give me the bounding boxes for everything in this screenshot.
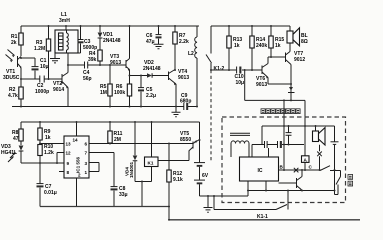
svg-text:9.1k: 9.1k: [173, 177, 183, 183]
svg-text:47: 47: [13, 136, 19, 142]
svg-text:9012: 9012: [294, 57, 305, 63]
svg-text:1k: 1k: [45, 135, 51, 141]
svg-text:IC1 556: IC1 556: [76, 156, 81, 173]
switch K1-1: [214, 196, 287, 220]
diode VD2: [143, 60, 169, 78]
svg-text:HG41L: HG41L: [1, 150, 17, 156]
resistor R2: [8, 87, 23, 107]
wire module bottom line: [248, 181, 335, 196]
wire pin7 to C8: [89, 153, 114, 187]
wire supply rail y122: [21, 121, 200, 123]
transistor VT7: [286, 43, 306, 100]
capacitor C8: [111, 186, 128, 207]
X cut mark: [317, 152, 322, 157]
svg-text:100k: 100k: [114, 90, 125, 96]
wire pin12: [57, 153, 64, 164]
svg-text:8: 8: [67, 170, 70, 175]
svg-text:680p: 680p: [180, 99, 191, 105]
wire relay bottom node: [135, 182, 152, 207]
svg-text:3: 3: [85, 161, 88, 166]
svg-text:9014: 9014: [53, 87, 64, 93]
IC box (module): [240, 157, 279, 181]
wire pin6 to VT5 base: [89, 143, 193, 145]
svg-text:1.2M: 1.2M: [34, 46, 45, 52]
point A box: [302, 156, 320, 170]
transformer T1 box: [55, 26, 78, 53]
wire K1-2 to C10 to VT6 base: [211, 69, 262, 71]
resistor R3: [34, 26, 51, 79]
resistor R12: [167, 144, 183, 220]
resistor R1: [11, 26, 23, 56]
svg-text:1k: 1k: [234, 43, 240, 49]
transistor VT2: [53, 53, 68, 107]
ground (battery): [204, 196, 213, 212]
capacitor C2: [35, 76, 49, 96]
battery 6V: [194, 122, 209, 196]
svg-text:9013: 9013: [110, 60, 121, 66]
svg-text:9013: 9013: [178, 75, 189, 81]
svg-text:7: 7: [85, 151, 88, 156]
speaker BL: [287, 28, 308, 46]
label module (Chinese): [261, 109, 300, 114]
resistor R11: [108, 122, 123, 144]
transistor VT6: [256, 57, 271, 88]
capacitor (module c1): [265, 141, 268, 148]
transformer (module): [230, 133, 250, 157]
relay K1: [145, 122, 159, 182]
svg-text:IC: IC: [258, 168, 263, 174]
wire base line y65: [68, 64, 126, 66]
resistor R4: [88, 50, 102, 65]
svg-text:9: 9: [67, 161, 70, 166]
wire emitter node y75.5: [130, 75, 148, 77]
wire ground rail (left section): [12, 106, 197, 108]
svg-text:2.2μ: 2.2μ: [146, 93, 156, 99]
X cut mark 2: [294, 168, 299, 173]
wire pin2 to ground rail: [76, 178, 78, 207]
svg-text:10μ: 10μ: [236, 80, 245, 86]
capacitor (module c2): [278, 141, 282, 148]
svg-text:13: 13: [66, 142, 72, 147]
wire VT7 base: [271, 56, 286, 58]
svg-text:1.2k: 1.2k: [44, 150, 54, 156]
diode VD4: [125, 122, 138, 182]
wire battery minus: [200, 195, 249, 197]
wire pin13: [40, 143, 64, 145]
svg-text:1M: 1M: [100, 90, 107, 96]
module dashed box: [222, 117, 346, 203]
wire long bottom rail: [169, 219, 360, 221]
wire top rail (left section): [21, 25, 199, 27]
resistor R9: [38, 122, 51, 145]
svg-text:3mH: 3mH: [59, 18, 70, 24]
diode VD1: [98, 26, 121, 50]
capacitor (module right): [331, 126, 339, 191]
svg-text:1000p: 1000p: [35, 89, 49, 95]
wire top rail (amp): [211, 26, 290, 31]
wire module second line: [252, 145, 304, 158]
svg-text:2N4148: 2N4148: [143, 66, 161, 72]
svg-text:4.7k: 4.7k: [8, 93, 18, 99]
svg-text:K1-2: K1-2: [214, 66, 225, 72]
switch K1-2: [206, 26, 225, 162]
resistor R13: [227, 26, 243, 70]
svg-text:10μ: 10μ: [40, 64, 49, 70]
svg-text:2N4148: 2N4148: [103, 38, 121, 44]
svg-text:1: 1: [85, 170, 88, 175]
node dots left section: [20, 25, 198, 108]
wire ground rail (receiver): [40, 206, 169, 208]
svg-text:2M: 2M: [114, 137, 121, 143]
photodiode VD3: [1, 144, 23, 163]
wire switch row: [279, 169, 321, 171]
svg-text:56p: 56p: [83, 76, 92, 82]
ground (VT4 emitter): [172, 112, 181, 116]
transistor VT5: [180, 131, 200, 151]
svg-text:14: 14: [73, 138, 79, 143]
wire pin3-pin1 loop: [89, 163, 99, 172]
capacitor C5: [138, 76, 156, 107]
speaker YD: [313, 126, 326, 151]
resistor R7: [173, 26, 189, 70]
svg-text:C: C: [309, 165, 313, 170]
svg-text:B: B: [280, 165, 284, 170]
svg-text:K1: K1: [148, 161, 154, 166]
switch key: [320, 166, 353, 195]
svg-text:12: 12: [66, 151, 72, 156]
capacitor (module mid): [286, 126, 292, 145]
svg-text:39k: 39k: [88, 57, 97, 63]
transistor VT3: [110, 26, 130, 76]
svg-text:L2: L2: [188, 51, 194, 57]
resistor R8: [12, 122, 23, 145]
svg-text:2.2k: 2.2k: [179, 39, 189, 45]
svg-text:3DU5C: 3DU5C: [3, 75, 20, 81]
capacitor C4: [83, 62, 92, 83]
wire K1-1 right vertical: [287, 191, 289, 210]
svg-text:8550: 8550: [180, 137, 191, 143]
transistor Q (module): [279, 170, 303, 191]
svg-text:47μ: 47μ: [146, 39, 155, 45]
capacitor C1: [32, 58, 49, 79]
svg-text:6V: 6V: [202, 173, 209, 179]
wire module top line: [262, 126, 335, 145]
svg-text:240k: 240k: [256, 43, 267, 49]
transistor VT1 (photo): [3, 50, 21, 88]
IC1 box: [64, 122, 89, 178]
svg-text:6: 6: [85, 142, 88, 147]
capacitor C9 680p (in rail): [180, 93, 191, 110]
node dots receiver: [39, 121, 215, 208]
transistor VT4: [169, 69, 190, 112]
capacitor C10: [235, 67, 245, 87]
resistor R14: [250, 26, 268, 70]
capacitor C7: [37, 163, 57, 207]
resistor R6: [114, 76, 132, 107]
wire collector node to C1: [21, 57, 35, 59]
inductor L2: [188, 26, 197, 107]
svg-text:8Ω: 8Ω: [301, 39, 308, 45]
svg-text:1N4001: 1N4001: [129, 161, 134, 178]
svg-text:0.01μ: 0.01μ: [44, 190, 57, 196]
wire VD3 to pin9: [21, 162, 64, 164]
node dots amp: [210, 25, 292, 101]
wire feedback line: [21, 78, 62, 80]
wire emitter join y84: [268, 83, 291, 85]
svg-text:9013: 9013: [256, 82, 267, 88]
capacitor C3: [78, 26, 98, 53]
wire relay top node: [158, 151, 189, 161]
capacitor C6 with ground: [146, 26, 164, 49]
resistor R5: [100, 65, 112, 107]
svg-text:33μ: 33μ: [119, 192, 128, 198]
svg-text:K1-1: K1-1: [257, 214, 268, 220]
svg-text:2k: 2k: [11, 40, 17, 46]
resistor R15: [269, 26, 285, 57]
node dots module: [168, 125, 336, 221]
wire amp to module: [245, 70, 305, 170]
svg-text:1k: 1k: [275, 43, 281, 49]
resistor R10: [38, 144, 54, 163]
ground (transformer): [50, 53, 60, 63]
wire pin8 stub: [59, 171, 64, 173]
